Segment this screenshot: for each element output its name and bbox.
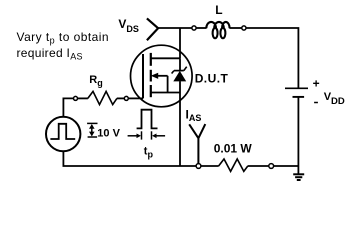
wire xyxy=(248,165,269,167)
battery VDD top plate xyxy=(285,87,308,89)
wire xyxy=(196,27,206,29)
svg-text:Vary tp to obtain: Vary tp to obtain xyxy=(17,30,110,46)
wire xyxy=(201,165,219,167)
svg-text:10 V: 10 V xyxy=(97,128,120,140)
mosfet gate line xyxy=(142,54,144,98)
wire top rail xyxy=(158,27,193,29)
wire xyxy=(274,165,299,167)
wire pulse generator to bottom rail xyxy=(62,151,64,166)
wire xyxy=(229,27,241,29)
dimension arrow 10V xyxy=(87,122,97,124)
mosfet body to source drop xyxy=(167,76,169,93)
pulse generator waveform xyxy=(50,124,75,139)
label minus xyxy=(314,102,318,104)
wire source down to bottom rail xyxy=(179,93,181,167)
resistor Rg zigzag xyxy=(88,91,117,104)
wire gate lead xyxy=(128,97,143,99)
node shunt right terminal xyxy=(269,164,274,169)
wire xyxy=(78,97,88,99)
wire to top-right corner and down to battery xyxy=(246,28,298,88)
mosfet drain bar xyxy=(151,57,180,59)
mosfet body bar with arrow xyxy=(155,75,168,77)
body diode (zener) of D.U.T xyxy=(179,58,181,70)
wire bottom rail xyxy=(63,165,197,167)
probe VDS chevron xyxy=(147,18,158,40)
node Rg left terminal xyxy=(74,96,78,100)
wire pulse generator to Rg xyxy=(63,98,73,117)
battery VDD bottom plate xyxy=(293,96,305,98)
tp dimension arrows xyxy=(128,135,137,137)
ground xyxy=(293,173,304,175)
node shunt left terminal xyxy=(196,164,201,169)
wire xyxy=(117,97,124,99)
svg-text:0.01 W: 0.01 W xyxy=(214,142,253,156)
wire right rail bottom xyxy=(297,97,299,174)
mosfet source bar xyxy=(151,92,180,94)
tp pulse waveform xyxy=(137,110,158,129)
mosfet channel segments xyxy=(150,53,152,66)
wire drain from top rail xyxy=(179,28,181,58)
node Rg right terminal xyxy=(124,96,128,100)
D.U.T MOSFET Q1 circle xyxy=(131,45,193,107)
pulse generator V1 circle xyxy=(46,117,80,151)
resistor shunt 0.01W zigzag xyxy=(219,159,248,171)
inductor L xyxy=(206,22,229,38)
svg-text:+: + xyxy=(313,77,320,91)
svg-text:L: L xyxy=(215,3,222,17)
node inductor right terminal xyxy=(242,26,246,30)
node inductor left terminal xyxy=(192,26,196,30)
svg-text:D.U.T: D.U.T xyxy=(195,71,229,85)
current arrow IAS xyxy=(189,124,205,164)
